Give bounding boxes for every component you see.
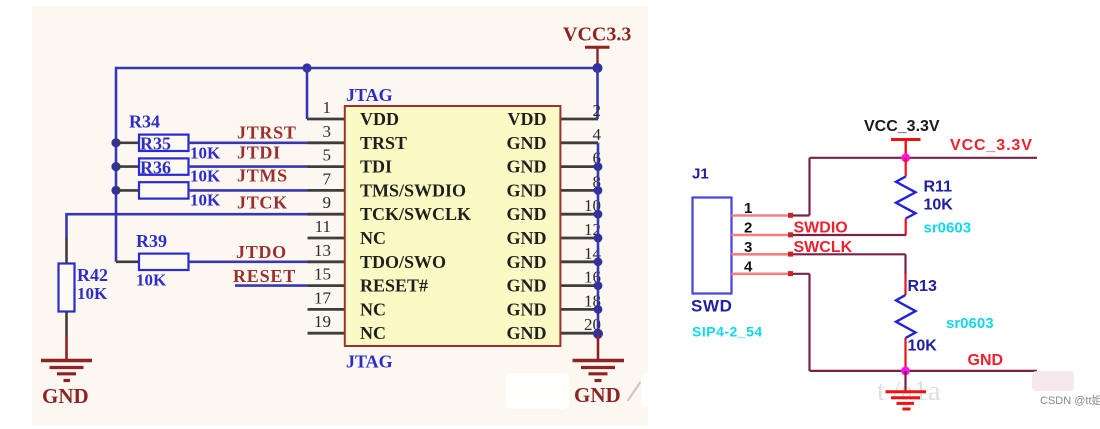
svg-text:VDD: VDD — [508, 109, 547, 129]
svg-text:J1: J1 — [692, 166, 709, 183]
svg-text:9: 9 — [323, 193, 332, 212]
svg-text:1: 1 — [323, 98, 332, 117]
svg-text:2: 2 — [744, 220, 752, 237]
svg-text:GND: GND — [507, 299, 547, 319]
node: magenta junction GND — [901, 367, 910, 376]
resistor R13 — [896, 254, 916, 371]
svg-text:GND: GND — [507, 323, 547, 343]
watermark small marks — [565, 384, 567, 401]
resistor R39 — [116, 254, 308, 270]
svg-text:10K: 10K — [77, 284, 108, 303]
wire: J1 pin2 (SWDIO) — [732, 234, 792, 237]
svg-text:NC: NC — [360, 323, 386, 343]
svg-text:RESET#: RESET# — [360, 276, 428, 296]
svg-text:R39: R39 — [136, 231, 167, 251]
svg-text:10K: 10K — [190, 191, 221, 210]
ground (SWD GND symbol) — [886, 371, 927, 409]
pin numbers (right, even) — [584, 101, 602, 334]
svg-text:JTDI: JTDI — [237, 143, 281, 163]
svg-text:NC: NC — [360, 228, 386, 248]
wire: R42 to ground — [65, 312, 68, 337]
svg-text:JTRST: JTRST — [237, 123, 297, 143]
node B (bus/R35 row) — [111, 162, 120, 171]
resistor R35 (row pin5, JTDI pull-up) — [116, 158, 308, 174]
svg-text:17: 17 — [314, 288, 332, 307]
resistor R42 — [59, 264, 75, 312]
svg-text:JTCK: JTCK — [237, 193, 288, 213]
svg-text:GND: GND — [507, 180, 547, 200]
pin names (left column) — [360, 109, 471, 343]
wire: pin4 dropper to GND rail — [808, 274, 810, 371]
ground (left GND) — [41, 361, 92, 381]
svg-text:10K: 10K — [136, 271, 167, 290]
svg-text:RESET: RESET — [233, 266, 296, 286]
connector J1 body — [693, 198, 732, 294]
svg-text:10K: 10K — [190, 167, 221, 186]
svg-text:R42: R42 — [77, 265, 108, 285]
svg-text:VCC3.3: VCC3.3 — [563, 24, 631, 46]
svg-text:JTAG: JTAG — [346, 352, 393, 372]
power VCC_3.3V symbol — [891, 140, 921, 156]
svg-text:4: 4 — [744, 258, 753, 275]
svg-text:3: 3 — [744, 239, 752, 256]
svg-text:7: 7 — [323, 169, 332, 188]
node: junction top wire / pin1 drop — [302, 63, 311, 72]
wire: GND rail — [810, 370, 1038, 372]
svg-text:NC: NC — [360, 299, 386, 319]
svg-text:sr0603: sr0603 — [924, 220, 972, 237]
svg-text:2: 2 — [593, 101, 602, 120]
svg-text:15: 15 — [314, 265, 331, 284]
svg-text:TDI: TDI — [360, 157, 392, 177]
svg-text:JTMS: JTMS — [237, 166, 288, 186]
wire: JTCK drop to R42 — [65, 213, 68, 238]
wire: JTCK row — [67, 213, 308, 216]
svg-text:SWCLK: SWCLK — [794, 239, 853, 256]
connector JTAG body (20-pin) — [345, 106, 561, 346]
resistor R36 (row pin7, JTMS pull-up) — [116, 182, 308, 198]
wire: J1 pin4 — [732, 272, 792, 275]
svg-text:TMS/SWDIO: TMS/SWDIO — [360, 180, 466, 200]
wire: pin1 riser to VCC rail — [808, 158, 810, 216]
svg-text:GND: GND — [507, 228, 547, 248]
svg-text:10K: 10K — [908, 338, 938, 355]
svg-text:GND: GND — [507, 252, 547, 272]
svg-text:10K: 10K — [924, 197, 954, 214]
svg-text:VDD: VDD — [360, 109, 399, 129]
svg-text:GND: GND — [968, 352, 1004, 369]
node: magenta junction VCC — [901, 153, 910, 162]
node: junction VCC / top wire / pin2 riser — [593, 63, 603, 73]
svg-text:JTAG: JTAG — [346, 85, 393, 105]
svg-text:R13: R13 — [908, 278, 937, 295]
wire: J1 pin3 (SWCLK) — [732, 253, 792, 256]
JTAG connector pin stubs (left side) — [307, 119, 345, 333]
svg-text:13: 13 — [314, 241, 331, 260]
wire: bus to right ground — [597, 334, 600, 359]
svg-text:GND: GND — [42, 384, 89, 408]
svg-text:SWDIO: SWDIO — [794, 220, 848, 237]
svg-text:4: 4 — [593, 125, 602, 144]
svg-text:GND: GND — [507, 157, 547, 177]
svg-text:R11: R11 — [924, 179, 953, 196]
svg-text:SIP4-2_54: SIP4-2_54 — [692, 324, 763, 340]
wire: J1 pin1 — [732, 214, 792, 217]
svg-text:5: 5 — [323, 146, 332, 165]
junction dots on GND bus — [594, 162, 603, 314]
svg-text:GND: GND — [574, 383, 621, 407]
wire: top bus VCC — [116, 67, 598, 70]
node C (bus/R36 row) — [111, 186, 120, 195]
wire: right GND bus — [597, 143, 600, 333]
svg-text:19: 19 — [314, 312, 331, 331]
svg-text:TCK/SWCLK: TCK/SWCLK — [360, 204, 471, 224]
watermark blobs — [506, 371, 1074, 409]
svg-text:11: 11 — [315, 217, 331, 236]
wire: pin2 riser — [596, 68, 599, 119]
wire: VCC_3.3V rail — [810, 157, 1038, 159]
svg-text:GND: GND — [507, 276, 547, 296]
svg-text:sr0603: sr0603 — [946, 315, 994, 332]
svg-text:JTDO: JTDO — [236, 242, 287, 262]
svg-text:VCC_3.3V: VCC_3.3V — [864, 118, 940, 135]
svg-text:R36: R36 — [140, 158, 171, 178]
wire: pin1 drop — [306, 68, 309, 119]
resistor R34 (row pin3, JTRST pull-up) — [116, 135, 308, 151]
ground (right GND) — [573, 361, 625, 381]
pin names (right column) — [507, 109, 547, 343]
node A (bus/R34 row) — [111, 138, 120, 147]
node: bus end pin20 — [593, 329, 603, 339]
pin numbers (left, odd) — [314, 98, 332, 331]
svg-text:VCC_3.3V: VCC_3.3V — [950, 137, 1033, 154]
svg-text:GND: GND — [507, 133, 547, 153]
svg-text:10K: 10K — [190, 144, 221, 163]
wire: left vertical bus — [115, 67, 118, 262]
svg-text:CSDN @tt姐: CSDN @tt姐 — [1040, 393, 1100, 407]
JTAG connector pin stubs (right side) — [560, 119, 598, 333]
resistor R11 — [896, 158, 916, 235]
svg-text:3: 3 — [323, 122, 332, 141]
svg-text:R34: R34 — [129, 112, 160, 132]
svg-text:TRST: TRST — [360, 133, 407, 153]
wire: RESET net — [235, 284, 308, 287]
svg-text:GND: GND — [507, 204, 547, 224]
svg-text:SWD: SWD — [691, 297, 732, 316]
svg-text:TDO/SWO: TDO/SWO — [360, 252, 446, 272]
svg-text:R35: R35 — [140, 134, 171, 154]
power VCC3.3 symbol — [585, 47, 610, 66]
svg-text:1: 1 — [744, 200, 752, 217]
